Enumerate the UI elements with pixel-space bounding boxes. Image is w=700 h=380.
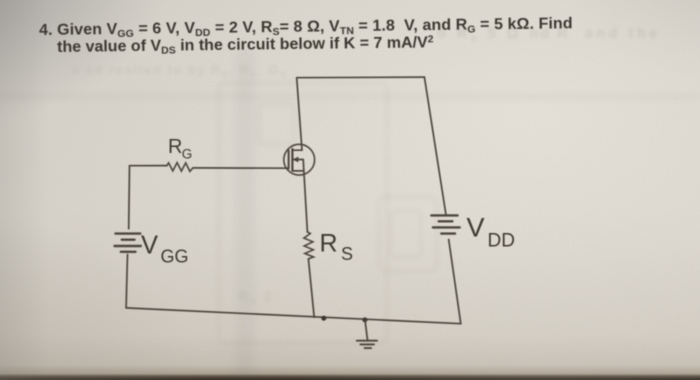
ground symbol [357,341,377,348]
faint bleed-through text upper right [437,26,661,42]
wire: drain up to top wire [297,78,302,151]
faint vertical page crease [236,50,254,380]
problem statement text line 2 [57,35,434,56]
wire: bottom horizontal [126,308,461,324]
mosfet channel bar [291,149,293,171]
label VGG [141,231,189,266]
faint horizontal crease [0,94,700,99]
resistor RS [304,232,314,259]
label VDD [467,212,515,251]
wire: VDD to bottom-right corner [449,240,461,324]
mosfet U1 circle [284,144,315,175]
mosfet drain lead [292,149,302,151]
mosfet gate bar [288,151,290,169]
wire: top horizontal [297,76,425,79]
wire: RS to bottom wire [308,259,314,317]
wire: gate loop top-left corner to RG [130,165,167,167]
problem statement text line 1 [39,16,573,39]
label RS [320,230,354,265]
resistor RG [167,163,193,172]
faint bleed-through box outlines [218,82,388,344]
junction dot at RS node [321,316,326,321]
mosfet source lead [292,170,303,172]
battery VDD [431,215,459,233]
wire: left vertical down to VGG [128,166,131,229]
mosfet arrow head [293,157,299,163]
mosfet body arrow lead [292,159,303,161]
battery VGG [115,234,141,252]
label RG [168,136,192,162]
wire: right vertical down to VDD [424,77,446,215]
wire: VGG to bottom-left corner [126,255,127,308]
wire: ground stem [365,320,368,340]
wire: RG to gate [193,167,289,169]
wire: source down to RS [303,160,307,232]
junction dot at ground node [362,317,367,322]
